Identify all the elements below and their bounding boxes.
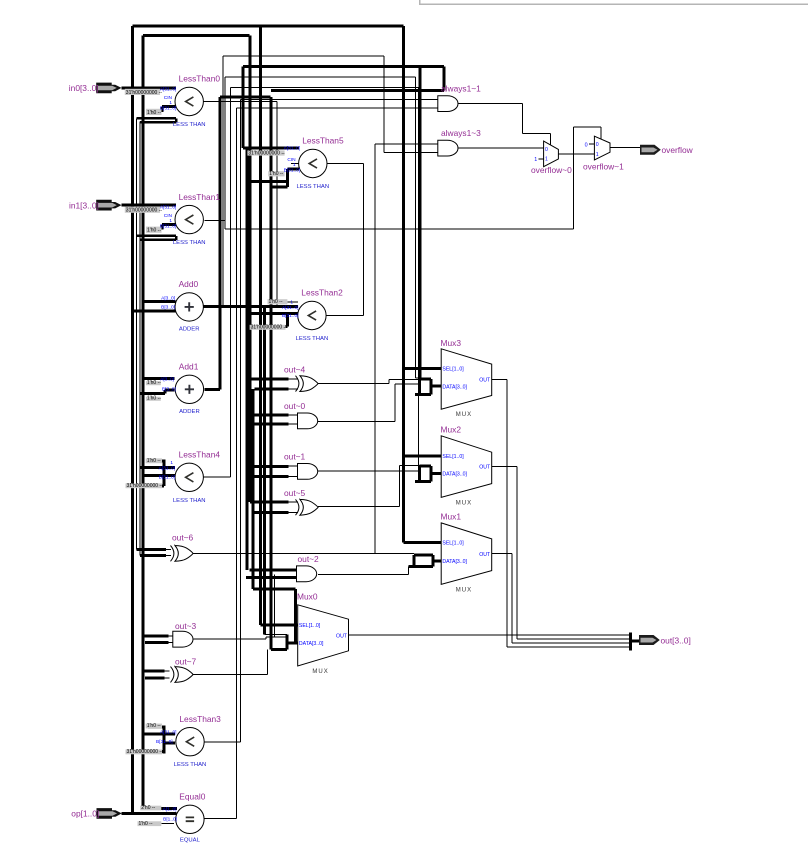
wire lt5 out [327, 163, 364, 165]
wire lt3 box31 row [148, 750, 164, 753]
svg-text:LessThan2: LessThan2 [301, 288, 343, 298]
const add1 b [146, 396, 161, 402]
wire mux1 out a [492, 553, 512, 555]
wire out0 out b [394, 384, 396, 422]
wire out7 out a [193, 674, 268, 676]
port overflow [640, 145, 661, 155]
svg-text:1: 1 [169, 100, 172, 106]
svg-text:0: 0 [545, 147, 548, 153]
wire lt0 step2 [140, 121, 176, 123]
svg-text:1'h0 --: 1'h0 -- [147, 396, 161, 402]
wire always1 in2 [237, 107, 438, 109]
wire out5 in2 [254, 511, 288, 514]
svg-text:1: 1 [290, 300, 293, 306]
wire add1 b row [165, 389, 175, 392]
const lt0 b [146, 109, 162, 116]
out~7 body [175, 667, 193, 683]
svg-text:EQUAL: EQUAL [180, 837, 201, 843]
wire out1 lead2 [289, 475, 299, 477]
wire out0 in1 [250, 413, 289, 416]
wire ovf1 sel riser [573, 127, 575, 229]
wire mux3 data row [431, 385, 441, 388]
svg-text:31'h00000000 --: 31'h00000000 -- [251, 325, 288, 331]
svg-text:Mux2: Mux2 [441, 425, 462, 435]
wire out2 branch [274, 574, 276, 637]
Mux1 body [441, 523, 492, 584]
svg-text:out~0: out~0 [284, 401, 306, 411]
svg-text:Mux1: Mux1 [441, 512, 462, 522]
svg-text:OUT: OUT [479, 465, 491, 471]
wire out6 in2 lead [166, 554, 171, 556]
wire out1 in2 [254, 475, 288, 478]
wire out collector [629, 633, 632, 651]
wire ovf0 sel drop [549, 134, 551, 145]
svg-text:1'h0 --: 1'h0 -- [147, 723, 161, 729]
wire lt4 b row [143, 474, 175, 477]
wire lt1out riser [224, 77, 226, 229]
wire mux0 hook top [265, 633, 288, 635]
wire add0 a row [143, 300, 176, 303]
wire lt4 hook bar [162, 459, 165, 486]
svg-text:DATA[3..0]: DATA[3..0] [442, 559, 467, 565]
wire mux0 hook v2 [286, 634, 289, 649]
svg-text:out~1: out~1 [284, 452, 306, 462]
svg-text:out[3..0]: out[3..0] [661, 635, 691, 645]
svg-text:2'h0 --: 2'h0 -- [141, 805, 155, 811]
wire bus y90 [271, 89, 444, 92]
wire lt2 b row [247, 312, 298, 315]
svg-text:1'h0 --: 1'h0 -- [147, 458, 161, 464]
overflow~1 body [594, 136, 610, 160]
svg-text:out~4: out~4 [284, 364, 306, 374]
wire lt0 b hook [161, 107, 164, 112]
svg-text:out~5: out~5 [284, 488, 306, 498]
wire lt2 box hook [286, 314, 289, 327]
svg-text:B[31..0]: B[31..0] [159, 474, 176, 480]
wire bus x242 [241, 66, 244, 148]
svg-text:B[31..0]: B[31..0] [156, 739, 173, 745]
wire out7 in2 lead [165, 677, 170, 679]
const eq a [140, 805, 161, 811]
wire out2 out a [318, 573, 409, 575]
wire out2 in1 [250, 569, 297, 572]
svg-text:1'h0 --: 1'h0 -- [269, 299, 283, 305]
svg-text:OUT: OUT [336, 633, 348, 639]
wire always1 out c [522, 133, 550, 135]
const lt2 b [250, 325, 288, 331]
wire out7 out b [267, 649, 269, 674]
wire out3 in2 lead [169, 642, 174, 644]
port out [639, 635, 660, 645]
wire mux1 out b [511, 554, 513, 643]
wire lt2 box row [250, 325, 287, 328]
svg-text:LessThan4: LessThan4 [179, 450, 221, 460]
wire mux1 out c [512, 642, 631, 644]
wire ovf1 sel top [574, 126, 601, 128]
wire mux3 hook v2 [430, 379, 433, 394]
wire mux1 data row [433, 559, 441, 562]
wire stub x443 [442, 66, 445, 90]
wire out6 in1 bar [136, 548, 166, 551]
wire net a top [223, 55, 384, 57]
const lt3 b [126, 749, 164, 755]
wire bus y97 [220, 95, 271, 98]
wire equal0 riser [236, 108, 238, 819]
svg-text:1: 1 [545, 157, 548, 163]
svg-text:MUX: MUX [456, 412, 472, 418]
wire out7 in2 bar [145, 676, 165, 679]
wire always1 out b [521, 104, 523, 134]
wire out4 out a [318, 383, 389, 385]
wire lt5 a row [243, 147, 299, 150]
wire bus x246 [245, 148, 248, 570]
wire out0 in2 [254, 423, 288, 426]
wire always3 riser [374, 144, 376, 554]
svg-text:ADDER: ADDER [179, 409, 200, 415]
out~6 body [175, 546, 193, 562]
wire bus x271 [270, 97, 273, 650]
wire out0 lead1 [289, 414, 299, 416]
svg-text:Mux3: Mux3 [441, 338, 462, 348]
out~5 body [300, 499, 318, 515]
wire op trunk [131, 26, 134, 814]
wire add1 down bus [252, 389, 255, 589]
wire mux0 hook mid [266, 636, 287, 638]
wire lt3 box1 row [148, 726, 164, 729]
const lt5 b [268, 171, 284, 177]
svg-text:1: 1 [596, 152, 599, 158]
LessThan4 body [175, 463, 203, 491]
wire mux0 feed run [253, 587, 295, 590]
svg-text:B[31..0]: B[31..0] [284, 167, 301, 173]
svg-text:B[3..0]: B[3..0] [161, 305, 175, 311]
wire lt1 step v [175, 236, 177, 240]
svg-text:A[31..0]: A[31..0] [159, 465, 176, 471]
wire lt3out riser [239, 99, 241, 742]
svg-text:DATA[3..0]: DATA[3..0] [442, 384, 467, 390]
overflow~0 body [544, 141, 559, 167]
wire out3 out a [193, 638, 266, 640]
wire mux0 feed drop [294, 589, 297, 643]
svg-text:in0[3..0]: in0[3..0] [69, 83, 99, 93]
wire mux0 sel row [260, 623, 297, 626]
wire out4 in1 [250, 377, 289, 380]
wire ovf1 const stub [589, 143, 594, 145]
wire out6 in2 bar [140, 554, 166, 557]
svg-text:SEL[1..0]: SEL[1..0] [442, 541, 464, 547]
svg-text:LESS THAN: LESS THAN [173, 498, 206, 504]
svg-text:LESS THAN: LESS THAN [173, 240, 206, 246]
Mux3 body [441, 349, 492, 409]
svg-text:MUX: MUX [456, 500, 472, 506]
const lt4 cin [146, 458, 162, 464]
const lt1 a [125, 207, 163, 214]
wire out6 out [193, 552, 414, 554]
wire lt1 step2 [140, 239, 176, 241]
const lt2 cin [268, 299, 288, 305]
wire out bus [631, 639, 640, 642]
wire lt5 bhook v [286, 169, 289, 187]
wire eq a row [143, 807, 177, 810]
svg-text:31'h00000000 --: 31'h00000000 -- [248, 150, 285, 156]
wire add0 out [203, 305, 298, 308]
wire lt4 a row [140, 466, 175, 469]
wire lt0 b row [162, 105, 176, 108]
wire out0 out a [318, 421, 395, 423]
wire ovf1 out [610, 147, 641, 149]
wire lt4out riser [229, 87, 231, 477]
svg-text:A[3..0]: A[3..0] [160, 376, 174, 382]
wire always3 in2 [384, 151, 438, 153]
wire out3 in1 lead [169, 635, 174, 637]
svg-text:A[1..0]: A[1..0] [163, 806, 177, 812]
Mux0 body [298, 605, 349, 666]
wire bus y66 [243, 65, 444, 68]
wire out1 out [318, 470, 420, 472]
LessThan2 body [298, 301, 326, 329]
LessThan5 body [299, 149, 327, 177]
svg-text:1'h0 --: 1'h0 -- [139, 821, 153, 827]
wire always1 out a [458, 103, 522, 105]
svg-text:Add1: Add1 [179, 362, 199, 372]
svg-text:SEL[1..0]: SEL[1..0] [442, 367, 464, 373]
const eq b [138, 821, 162, 827]
wire add1 b feed [140, 392, 165, 395]
out~4 body [300, 376, 318, 392]
svg-text:A[3..0]: A[3..0] [161, 295, 175, 301]
wire lt3 out [204, 741, 240, 743]
svg-text:always1~1: always1~1 [441, 83, 481, 93]
svg-text:31'h00000000 --: 31'h00000000 -- [127, 483, 164, 489]
wire ovf0 const stub [539, 158, 544, 160]
wire in1 bus [121, 204, 176, 207]
wire lt5 b row [288, 167, 299, 170]
wire out5 lead1 [289, 501, 299, 503]
wire mux2 hook v1 [418, 465, 421, 481]
wire mux2 out b [516, 467, 518, 639]
wire lt3 hook bar [162, 726, 165, 754]
wire out3 out b [265, 637, 267, 639]
port in1 [96, 200, 121, 211]
wire out5 lead2 [289, 512, 299, 514]
wire mux2 out c [517, 638, 631, 640]
svg-text:DATA[3..0]: DATA[3..0] [442, 472, 467, 478]
wire lt4 box1 row [148, 459, 164, 462]
wire mux0 hook h1 [271, 648, 287, 651]
Add1 body [175, 375, 203, 403]
wire mux3 hook h2 [415, 393, 431, 396]
const lt1 b [146, 227, 162, 234]
wire net c drop [418, 87, 420, 465]
wire mux3 out c [507, 646, 631, 648]
wire mux0 sel trunk [259, 26, 262, 625]
out~0 body [298, 413, 318, 429]
svg-text:out~7: out~7 [175, 656, 197, 666]
wire mux1 hook v1 [413, 555, 416, 566]
svg-text:LessThan1: LessThan1 [179, 192, 221, 202]
wire lt0 out drop [276, 102, 278, 307]
wire mux0 data row [287, 642, 298, 645]
svg-text:A[31..0]: A[31..0] [160, 86, 177, 92]
wire mux2 hook h1 [420, 465, 432, 468]
LessThan1 body [175, 205, 203, 233]
wire mux1 sel row [404, 541, 442, 544]
wire mux3 hook h1 [420, 377, 432, 380]
svg-text:always1~3: always1~3 [441, 128, 481, 138]
page boundary line [420, 0, 808, 4]
wire trunk in1 [141, 36, 144, 809]
svg-text:out~2: out~2 [298, 554, 320, 564]
wire add0 b row [133, 309, 176, 312]
svg-text:SEL[1..0]: SEL[1..0] [299, 623, 321, 629]
wire op bus [121, 812, 176, 815]
svg-text:SEL[1..0]: SEL[1..0] [442, 454, 464, 460]
wire out3 in2 bar [145, 641, 169, 644]
wire out0 out c [395, 383, 419, 385]
wire mux2 sel row [404, 454, 442, 457]
svg-text:Mux0: Mux0 [297, 592, 318, 602]
wire out2 lead2 [289, 577, 299, 579]
svg-text:out~3: out~3 [175, 621, 197, 631]
wire out1 lead1 [289, 465, 299, 467]
svg-text:op[1..0]: op[1..0] [71, 809, 99, 819]
wire out5 out [318, 506, 400, 508]
svg-text:OUT: OUT [479, 378, 491, 384]
wire lt1 step1 [136, 235, 176, 237]
const lt0 a [125, 89, 163, 96]
svg-text:overflow: overflow [662, 145, 694, 155]
wire out6 in1 lead [166, 549, 171, 551]
wire tap t1 [135, 119, 137, 550]
wire out2 lead1 [289, 569, 299, 571]
svg-text:A[31..0]: A[31..0] [284, 146, 301, 152]
svg-text:in1[3..0]: in1[3..0] [69, 200, 99, 210]
Add0 body [175, 293, 203, 321]
wire lt0 step v [175, 118, 177, 122]
LessThan0 body [175, 87, 203, 115]
wire sel trunk [402, 26, 405, 542]
wire lt5 cin stub [291, 163, 299, 165]
wire always3 in1 [375, 143, 438, 145]
out~1 body [298, 464, 318, 480]
svg-text:MUX: MUX [312, 669, 328, 675]
svg-text:A[31..0]: A[31..0] [282, 305, 299, 311]
Equal0 body [176, 805, 204, 833]
Mux2 body [441, 436, 492, 498]
wire always1 in1 [240, 98, 437, 100]
svg-text:1: 1 [170, 460, 173, 466]
wire ovf1 sel drop [600, 127, 602, 139]
wire out4 out b [388, 380, 390, 384]
wire out2 out b [408, 566, 410, 574]
wire mux2 hook v2 [430, 466, 433, 482]
svg-text:LESS THAN: LESS THAN [296, 336, 329, 342]
wire lt1 out [205, 219, 225, 221]
wire out7 in1 bar [143, 669, 165, 672]
wire lt0 out [203, 101, 277, 103]
wire net b drop [415, 77, 417, 378]
svg-text:MUX: MUX [456, 587, 472, 593]
wire out3 in1 bar [143, 634, 169, 637]
svg-text:A[31..0]: A[31..0] [160, 204, 177, 210]
svg-text:1: 1 [534, 157, 537, 163]
port in0 [96, 83, 121, 94]
wire always3 out [458, 147, 543, 149]
wire mux2 hook h2 [415, 480, 431, 483]
wire ovf0 out [558, 153, 594, 155]
wire trunk mid bus [249, 36, 252, 503]
wire lt5 lt2 chain [363, 164, 365, 316]
wire lt1 b hook [161, 224, 164, 229]
wire mux2 data row [431, 472, 441, 475]
wire lt4 box31 row [148, 484, 164, 487]
wire mux3 out a [492, 379, 507, 381]
wire add1 a row [143, 377, 175, 380]
svg-text:31'h00000000 --: 31'h00000000 -- [127, 749, 164, 755]
svg-text:LessThan0: LessThan0 [179, 74, 221, 84]
wire out5 to mux2 [400, 465, 420, 467]
wire ovf1 sel run [225, 228, 574, 230]
wire mux1 hook h1 [414, 554, 433, 557]
wire mux2 out a [492, 466, 517, 468]
wire mux3 sel row [404, 367, 442, 370]
svg-text:0: 0 [585, 142, 588, 148]
wire net a drop [383, 56, 385, 152]
wire out7 in1 lead [165, 670, 170, 672]
wire add1 b hook [163, 390, 166, 394]
wire mux3 hook join [416, 377, 420, 379]
svg-text:B[31..0]: B[31..0] [282, 313, 299, 319]
svg-text:1: 1 [169, 218, 172, 224]
svg-text:LESS THAN: LESS THAN [296, 184, 329, 190]
wire net a x223 [222, 56, 224, 306]
svg-text:1: 1 [293, 162, 296, 168]
svg-text:out~6: out~6 [172, 533, 194, 543]
svg-text:overflow~1: overflow~1 [583, 161, 624, 171]
wire out5 in1 [250, 501, 289, 504]
wire out0 lead2 [289, 423, 299, 425]
wire add1out riser [219, 97, 222, 389]
wire add1 out [204, 388, 220, 391]
wire out4 lead1 [289, 378, 299, 380]
LessThan3 body [176, 728, 204, 756]
wire in0 bus [121, 86, 176, 89]
port op [97, 808, 122, 819]
svg-text:DATA[3..0]: DATA[3..0] [299, 641, 324, 647]
out~2 body [297, 566, 317, 582]
wire mux3 hook v1 [418, 378, 421, 394]
svg-text:Equal0: Equal0 [179, 792, 205, 802]
wire lt3 a row [143, 733, 175, 736]
svg-text:31'h00000000 --: 31'h00000000 -- [126, 208, 163, 214]
const lt4 b [126, 483, 164, 489]
svg-text:LessThan5: LessThan5 [302, 136, 344, 146]
wire equal0 out [204, 818, 236, 820]
wire lt5 bhook run [271, 185, 288, 188]
svg-text:overflow~0: overflow~0 [531, 165, 572, 175]
wire lt2 out [326, 315, 364, 317]
svg-text:A[31..0]: A[31..0] [160, 730, 177, 736]
svg-text:LessThan3: LessThan3 [179, 714, 221, 724]
svg-text:ADDER: ADDER [179, 327, 200, 333]
svg-text:B[1..0]: B[1..0] [163, 817, 177, 823]
wire mux1 hook h2 [409, 565, 433, 568]
const add1 a [146, 380, 161, 386]
wire lt3 b row [164, 741, 175, 744]
out~3 body [173, 631, 193, 647]
svg-text:B[31..0]: B[31..0] [160, 223, 177, 229]
wire mux0 out [349, 634, 631, 636]
